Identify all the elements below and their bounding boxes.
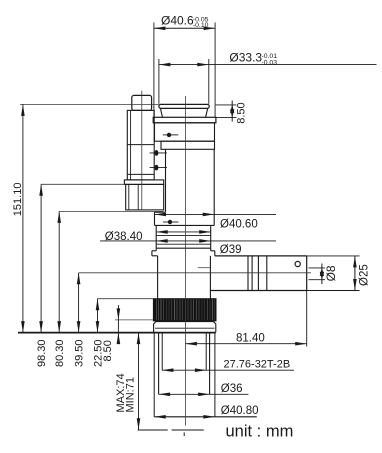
dimension 39.50: dim line with arrows <box>77 273 81 333</box>
bottom barrel d36 walls <box>158 333 160 395</box>
left tube base block inner lines <box>128 184 130 210</box>
svg-text:-0.03: -0.03 <box>262 60 278 67</box>
dimension 8.50 right of cap: extension lines <box>216 104 237 106</box>
left tube joint line 2 <box>127 173 154 175</box>
svg-text:27.76-32T-2B: 27.76-32T-2B <box>224 359 291 371</box>
body band B <box>161 141 215 149</box>
dimension 27.76-32T-2B: dim line with arrows <box>162 368 294 372</box>
main vertical centerline <box>184 96 186 426</box>
svg-text:81.40: 81.40 <box>236 333 265 345</box>
dimension 22.50 value label (rotated) <box>92 339 104 367</box>
dimension 151.10 extension line at cap top <box>20 103 159 105</box>
left tube inner wall line <box>130 110 132 179</box>
dimension d36: dim line with arrows <box>159 393 249 397</box>
top cap ring of main body <box>159 104 209 108</box>
dimension d33.3 value label <box>229 51 277 67</box>
hidden bore line in housing <box>198 267 211 269</box>
main body step edge <box>155 211 166 213</box>
side port outline <box>210 256 306 291</box>
svg-text:Ø39: Ø39 <box>220 244 242 256</box>
barrel bottom edge / dimension d40.80 dim line with arrows <box>154 415 257 419</box>
dimension d25 value label (rotated) <box>358 264 370 286</box>
dimension d39 long line with arrows <box>100 239 276 243</box>
dimension d33.3: dim line <box>159 63 377 67</box>
dimension d40.6 value label <box>161 14 209 30</box>
svg-text:80.30: 80.30 <box>54 339 66 367</box>
dimension MAX:74 MIN:71: dim line with arrows <box>137 333 141 430</box>
lower lip ring below knurl <box>154 322 216 333</box>
svg-text:Ø36: Ø36 <box>221 383 243 395</box>
dimension d40.60: dim line through body <box>155 213 277 217</box>
dimension 8.50 left value label (rotated) <box>102 340 114 361</box>
side port ring lines <box>248 256 267 291</box>
svg-text:Ø40.80: Ø40.80 <box>221 405 259 417</box>
left tube joint line 1 <box>127 144 154 146</box>
dimension 81.40: dim line with arrows <box>185 342 306 346</box>
dimension 98.30 extension line <box>41 183 124 185</box>
dimension d25: dim line with arrows <box>353 256 357 291</box>
dimension MIN:71 value label (rotated) <box>125 377 137 412</box>
dimension d25: extension lines <box>307 255 360 257</box>
dimension d40.80 value label <box>221 405 259 417</box>
svg-text:Ø25: Ø25 <box>358 264 370 286</box>
left tube flange <box>124 180 163 185</box>
dimension d33.3 extension line left <box>158 59 160 104</box>
main body section walls <box>165 149 167 212</box>
dimension 27.76-32T-2B value label <box>224 359 291 371</box>
svg-text:151.10: 151.10 <box>12 183 24 217</box>
dimension d36 value label <box>221 383 243 395</box>
unit label <box>226 422 294 440</box>
svg-text:8.50: 8.50 <box>102 340 114 361</box>
top cap taper sides <box>161 109 163 117</box>
housing neck notch right <box>211 251 215 256</box>
dimension 8.50 left: dim line with outside arrows <box>117 305 121 344</box>
dimension 98.30 value label (rotated) <box>36 339 48 367</box>
bottom centerline dashes (max travel line) <box>138 430 204 436</box>
dimension d8: extension lines <box>309 267 326 269</box>
set screw S2 on lower body <box>163 220 179 224</box>
dimension d40.6 extension line right <box>214 23 216 118</box>
dimension 80.30: dim line with arrows <box>57 211 61 332</box>
body section A below flange <box>155 123 215 141</box>
dimension d8 value label (rotated) <box>324 265 338 281</box>
dimension 22.50 extension line (knurl top) <box>98 298 154 300</box>
svg-text:8.50: 8.50 <box>236 102 248 123</box>
main body bottom edge <box>155 224 215 226</box>
dimension 81.40 extension line from port end <box>306 291 308 347</box>
knurled focus ring <box>153 299 216 321</box>
dimension 81.40 value label <box>236 333 265 345</box>
left tube body <box>127 110 154 179</box>
dimension MAX:74 value label (rotated) <box>115 373 127 412</box>
svg-text:unit : mm: unit : mm <box>226 422 294 440</box>
dimension 98.30: dim line with arrows <box>39 184 43 332</box>
dimension d8: dim line with arrows <box>320 264 324 285</box>
svg-text:MIN:71: MIN:71 <box>125 377 137 412</box>
svg-text:39.50: 39.50 <box>73 339 85 367</box>
svg-text:Ø40.6: Ø40.6 <box>161 14 194 28</box>
set screw S1 on body section A <box>163 133 179 137</box>
dimension d38.40 value label <box>105 231 143 243</box>
svg-text:-0.10: -0.10 <box>193 22 209 29</box>
dimension 151.10: dim line with arrows <box>21 104 25 332</box>
ring stack groove lines <box>156 231 211 233</box>
side port set screw hole <box>295 261 300 266</box>
dimension 8.50 right: dim line with arrows <box>230 101 234 122</box>
left tube centerline <box>141 91 143 210</box>
bottom barrel outer walls d40.80 <box>153 333 155 417</box>
dimension d40.60 value label <box>220 219 258 231</box>
svg-text:98.30: 98.30 <box>36 339 48 367</box>
housing neck notch left <box>152 251 158 256</box>
left tube set screw upper <box>150 150 167 156</box>
left tube base block <box>126 184 164 210</box>
dimension d33.3 extension line right <box>208 59 210 104</box>
port axis centerline / dimension 39.50 extension <box>79 272 311 274</box>
svg-text:Ø40.60: Ø40.60 <box>220 219 258 231</box>
dimension d39 value label <box>220 244 242 256</box>
bottom barrel thread walls <box>161 333 163 371</box>
ring stack walls <box>155 225 157 250</box>
dimension 80.30 value label (rotated) <box>54 339 66 367</box>
left tube top cap <box>132 95 152 110</box>
svg-text:Ø33.3: Ø33.3 <box>229 51 262 65</box>
dimension 8.50 right value label (rotated) <box>236 102 248 123</box>
left tube set screw lower <box>150 165 167 171</box>
svg-text:Ø38.40: Ø38.40 <box>105 231 143 243</box>
top flange d40.6 of main body <box>153 117 216 123</box>
housing walls <box>157 256 159 299</box>
datum baseline (lip bottom edge extended left) <box>18 332 216 334</box>
dimension d40.6 extension line left <box>153 23 155 118</box>
dimension d38.40 arrows on ring <box>156 230 211 234</box>
dimension 80.30 extension line <box>59 210 163 212</box>
svg-text:Ø8: Ø8 <box>324 265 338 281</box>
dimension 8.50 left extension line (knurl bottom) <box>115 319 153 321</box>
dimension 39.50 value label (rotated) <box>73 339 85 367</box>
dimension 151.10 value label (rotated) <box>12 183 24 217</box>
dimension 22.50: dim line with arrows <box>96 299 100 333</box>
dimension d40.6 top: dim line <box>154 27 215 31</box>
